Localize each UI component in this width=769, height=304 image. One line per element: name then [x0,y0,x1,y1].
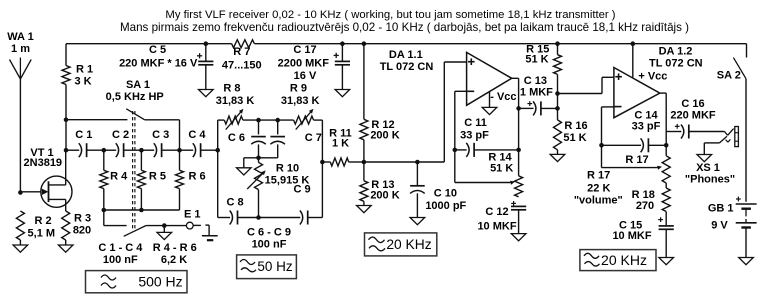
svg-text:C 8: C 8 [226,196,243,208]
svg-text:SA 2: SA 2 [717,69,741,81]
svg-text:51 K: 51 K [490,162,513,174]
svg-text:820: 820 [73,225,91,237]
svg-text:C 3: C 3 [152,129,169,141]
svg-text:C 16: C 16 [681,98,704,110]
svg-text:C 4: C 4 [188,129,206,141]
svg-text:C 17: C 17 [293,44,316,56]
svg-text:220 MKF * 16 V: 220 MKF * 16 V [119,57,198,69]
svg-text:6,2 K: 6,2 K [161,254,187,266]
svg-text:2N3819: 2N3819 [24,157,63,169]
svg-text:100 nF: 100 nF [103,254,138,266]
svg-text:C 2: C 2 [112,129,129,141]
svg-text:My first VLF receiver 0,02 - 1: My first VLF receiver 0,02 - 10 KHz ( wo… [165,9,615,21]
svg-text:31,83 K: 31,83 K [281,95,320,107]
svg-text:R 4 - R 6: R 4 - R 6 [153,242,197,254]
svg-text:DA 1.2: DA 1.2 [659,46,693,58]
svg-text:R 8: R 8 [223,83,240,95]
svg-text:5,1 M: 5,1 M [28,228,56,240]
svg-text:51 K: 51 K [563,132,586,144]
svg-text:2200 MKF: 2200 MKF [278,57,330,69]
svg-text:0,5 KHz HP: 0,5 KHz HP [106,91,164,103]
svg-text:1000 pF: 1000 pF [425,200,466,212]
svg-text:R 17: R 17 [625,154,648,166]
svg-text:R 16: R 16 [564,120,587,132]
svg-text:20 KHz: 20 KHz [601,252,647,268]
svg-text:C 1: C 1 [75,129,92,141]
svg-text:R 3: R 3 [74,213,91,225]
svg-text:E 1: E 1 [184,209,201,221]
svg-text:+ Vcc: + Vcc [638,70,667,82]
svg-text:100 nF: 100 nF [252,239,287,251]
svg-text:R 1: R 1 [76,64,93,76]
svg-text:47...150: 47...150 [222,59,262,71]
svg-text:C 12: C 12 [485,206,508,218]
svg-text:200 K: 200 K [370,190,399,202]
svg-text:R 7: R 7 [233,46,250,58]
svg-text:"volume": "volume" [574,195,623,207]
svg-text:3 K: 3 K [74,75,91,87]
svg-text:R 2: R 2 [34,215,51,227]
svg-text:C 6: C 6 [228,132,245,144]
svg-text:20 KHz: 20 KHz [386,237,431,252]
svg-text:C 10: C 10 [434,187,457,199]
svg-text:33 pF: 33 pF [632,120,661,132]
svg-text:1 K: 1 K [332,138,349,150]
svg-text:10 MKF: 10 MKF [612,230,651,242]
svg-text:R 5: R 5 [149,171,166,183]
svg-text:10 MKF: 10 MKF [477,221,516,233]
svg-text:TL 072 CN: TL 072 CN [649,57,703,69]
svg-text:R 10: R 10 [276,163,299,175]
svg-text:"Phones": "Phones" [685,174,735,186]
svg-text:50 Hz: 50 Hz [257,259,293,274]
svg-text:TL 072 CN: TL 072 CN [380,61,434,73]
svg-text:500 Hz: 500 Hz [138,274,182,290]
svg-text:- Vcc: - Vcc [490,91,516,103]
svg-text:9 V: 9 V [711,219,728,231]
svg-text:Mans pirmais zemo frekvenču ra: Mans pirmais zemo frekvenču radiouztvērē… [120,21,689,34]
svg-text:200 K: 200 K [370,130,399,142]
svg-text:C 1 - C 4: C 1 - C 4 [98,242,143,254]
svg-text:DA 1.1: DA 1.1 [389,49,423,61]
svg-text:1 MKF: 1 MKF [520,87,553,99]
svg-text:R 17: R 17 [587,170,610,182]
svg-text:R 9: R 9 [290,83,307,95]
svg-text:C 11: C 11 [464,117,487,129]
svg-text:C 6 - C 9: C 6 - C 9 [247,227,291,239]
svg-text:WA 1: WA 1 [7,31,34,43]
svg-text:33 pF: 33 pF [460,130,489,142]
svg-text:31,83 K: 31,83 K [216,95,255,107]
svg-text:220 MKF: 220 MKF [670,110,716,122]
svg-text:C 5: C 5 [149,44,166,56]
svg-text:16 V: 16 V [294,70,317,82]
svg-text:GB 1: GB 1 [708,202,734,214]
svg-text:XS 1: XS 1 [696,162,720,174]
svg-text:C 7: C 7 [305,132,322,144]
svg-text:51 K: 51 K [525,54,548,66]
svg-text:R 6: R 6 [188,171,205,183]
svg-text:270: 270 [636,200,654,212]
svg-text:1 m: 1 m [11,43,30,55]
svg-text:C 13: C 13 [524,75,547,87]
svg-text:SA 1: SA 1 [126,79,150,91]
svg-text:22 K: 22 K [587,183,610,195]
svg-text:C 9: C 9 [293,184,310,196]
svg-text:R 4: R 4 [110,171,128,183]
